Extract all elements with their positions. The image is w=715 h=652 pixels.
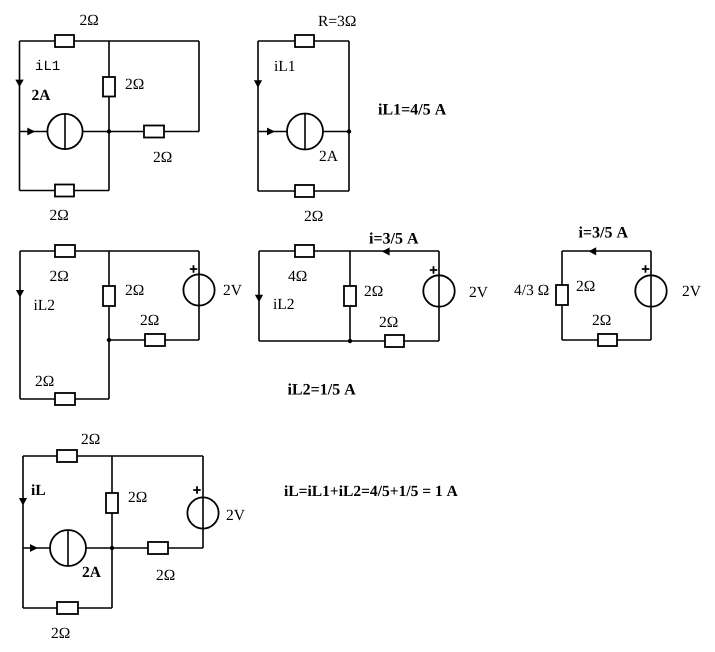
resistor 2ohm top [55, 35, 74, 47]
voltage source 2V [423, 275, 454, 306]
arrow iL down [19, 498, 27, 506]
result text iL [284, 485, 457, 496]
resistor 2ohm bottom [385, 335, 404, 347]
wire: top horizontal [259, 250, 439, 252]
voltage source 2V [187, 497, 218, 528]
wire: middle vertical [108, 251, 110, 399]
wire: top horizontal [20, 40, 200, 42]
wire: bottom horizontal [258, 190, 349, 192]
arrow iL1 down [254, 80, 262, 88]
wire: middle horizontal [258, 131, 349, 133]
resistor 2ohm middle vertical [344, 286, 356, 306]
resistor 2ohm middle vertical [106, 493, 118, 513]
resistor 2ohm bottom [295, 185, 314, 197]
resistor 2ohm bottom [57, 602, 78, 614]
wire: middle vertical [108, 41, 110, 191]
resistor 2ohm inner horizontal [145, 334, 165, 346]
node junction [110, 546, 114, 550]
wire: left vertical [561, 251, 563, 340]
resistor 4ohm top [295, 245, 314, 257]
wire: bottom horizontal [20, 398, 109, 400]
wire: top horizontal [23, 455, 203, 457]
arrow into source [30, 544, 38, 552]
wire: top horizontal [258, 40, 349, 42]
wire: bottom horizontal [259, 340, 439, 342]
current source 2A [50, 530, 86, 566]
wire: middle vertical [349, 251, 351, 341]
resistor 2ohm middle vertical [103, 77, 115, 97]
wire: bottom horizontal [562, 339, 651, 341]
wire: left vertical [22, 456, 24, 608]
wire: middle horizontal [20, 131, 200, 133]
resistor 2ohm top [57, 450, 77, 462]
wire: left vertical [19, 251, 21, 399]
wire: middle vertical [111, 456, 113, 608]
resistor 4/3 ohm left vertical [556, 285, 568, 305]
arrow into source [267, 128, 275, 136]
current source 2A [47, 114, 82, 149]
wire: bottom horizontal [23, 607, 112, 609]
arrow i on top wire (left) [382, 247, 390, 255]
arrow into source [27, 128, 35, 136]
arrow iL1 down [15, 80, 23, 88]
node junction [347, 129, 351, 133]
resistor 2ohm bottom [55, 185, 74, 197]
wire: right vertical [198, 251, 200, 340]
wire: left vertical [258, 251, 260, 341]
wire: right vertical [438, 251, 440, 341]
voltage source 2V [635, 275, 666, 306]
wire: top horizontal [562, 250, 651, 252]
wire: inner horizontal [109, 339, 199, 341]
resistor 2ohm bottom [55, 393, 75, 405]
resistor 2ohm middle-right [144, 126, 164, 138]
resistor R=3ohm top [295, 35, 314, 47]
wire: right vertical [202, 456, 204, 548]
wire: top horizontal [20, 250, 199, 252]
wire: right vertical [348, 41, 350, 191]
wire: bottom horizontal [20, 190, 110, 192]
arrow i on top wire (left) [589, 247, 597, 255]
resistor 2ohm middle-right [148, 542, 168, 554]
result text iL2 [288, 383, 356, 394]
wire: right vertical [198, 41, 200, 132]
resistor 2ohm middle vertical [103, 286, 115, 306]
node junction [107, 338, 111, 342]
arrow iL2 down [16, 290, 24, 298]
result text iL1 [378, 103, 446, 114]
node junction [107, 129, 111, 133]
arrow iL2 down [255, 295, 263, 303]
wire: left vertical [257, 41, 259, 191]
voltage source 2V [183, 274, 214, 305]
wire: middle horizontal [23, 547, 203, 549]
wire: right vertical [650, 251, 652, 340]
node junction [348, 339, 352, 343]
resistor 2ohm top [55, 245, 75, 257]
current source 2A [287, 114, 323, 150]
resistor 2ohm bottom [598, 334, 617, 346]
wire: left vertical [19, 41, 21, 191]
